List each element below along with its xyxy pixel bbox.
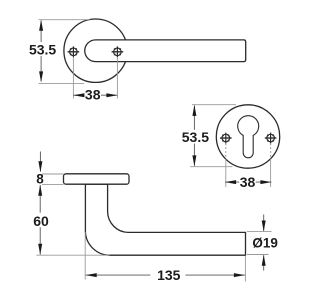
svg-text:8: 8 [36, 172, 44, 187]
svg-text:60: 60 [33, 213, 49, 229]
svg-text:38: 38 [85, 87, 101, 103]
svg-text:53.5: 53.5 [29, 41, 56, 57]
svg-text:Ø19: Ø19 [252, 236, 278, 251]
svg-text:38: 38 [240, 174, 256, 190]
svg-text:53.5: 53.5 [182, 129, 209, 145]
svg-text:135: 135 [157, 267, 181, 283]
